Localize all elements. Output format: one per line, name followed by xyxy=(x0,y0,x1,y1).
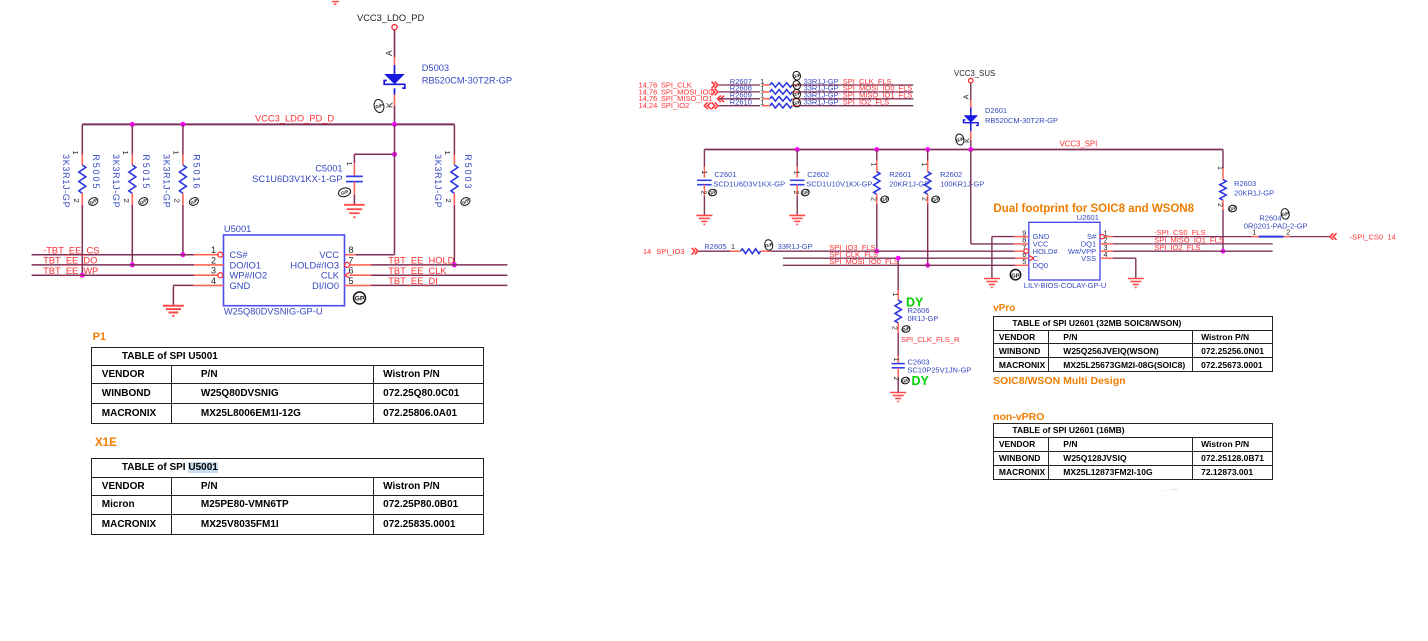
heading vPro xyxy=(993,303,1015,314)
svg-text:SPI_MOSI_IO0_FLS: SPI_MOSI_IO0_FLS xyxy=(829,257,899,266)
svg-text:DO/IO1: DO/IO1 xyxy=(230,260,262,270)
svg-text:G/P: G/P xyxy=(708,189,717,196)
heading P1 xyxy=(93,331,106,343)
svg-text:2: 2 xyxy=(122,199,131,203)
diode D2601 RB520CM-30T2R-GP xyxy=(964,106,1058,131)
pin 1 lead with bubble (S#) xyxy=(1100,234,1113,238)
node junction dot C5001 tap xyxy=(392,152,397,157)
resistor R2608 33R1J-GP xyxy=(719,84,839,95)
svg-text:2: 2 xyxy=(891,326,898,330)
svg-text:VCC3_LDO_PD_D: VCC3_LDO_PD_D xyxy=(255,114,334,124)
svg-text:C5001: C5001 xyxy=(315,164,342,174)
power symbol VCC3_LDO_PD xyxy=(357,13,424,30)
wire diode cathode to rail xyxy=(970,131,972,150)
svg-text:1: 1 xyxy=(891,293,898,297)
svg-text:G/P: G/P xyxy=(375,103,384,110)
node junction dots on VCC3_SPI rail xyxy=(795,147,973,152)
svg-text:C2601: C2601 xyxy=(714,170,736,179)
pin 7 lead with bubble (HOLD#/IO3) xyxy=(345,262,371,267)
svg-text:GP: GP xyxy=(355,296,365,303)
node junction dot R5003/TBT_EE_HOLD xyxy=(452,262,457,267)
svg-text:1: 1 xyxy=(211,245,216,255)
svg-text:2: 2 xyxy=(444,199,453,203)
off-page connector -SPI_CS0 xyxy=(1330,232,1396,241)
node junction dot R5005 xyxy=(80,273,85,278)
svg-text:G/P: G/P xyxy=(340,189,349,196)
resistor R5016 3K3R1J-GP xyxy=(162,124,202,254)
ground C2602 xyxy=(789,215,805,224)
svg-text:G/P: G/P xyxy=(801,189,810,196)
pin 1 lead with bubble (CS#) xyxy=(194,252,223,257)
svg-text:1: 1 xyxy=(171,151,180,155)
svg-text:2: 2 xyxy=(699,191,706,195)
svg-text:VCC3_SUS: VCC3_SUS xyxy=(954,69,995,78)
resistor R2609 33R1J-GP xyxy=(719,91,839,102)
wire VCC column to U5001 pin 8 xyxy=(345,124,395,254)
resistor R5015 3K3R1J-GP xyxy=(111,124,151,265)
svg-text:GP: GP xyxy=(1011,273,1020,279)
svg-text:2: 2 xyxy=(792,191,799,195)
svg-text:DQ0: DQ0 xyxy=(1033,261,1048,270)
pin 4 lead (GND) xyxy=(193,284,223,286)
svg-text:R5005: R5005 xyxy=(91,154,101,190)
wire rail VCC3_LDO_PD_D xyxy=(82,114,454,125)
svg-text:2: 2 xyxy=(870,197,877,201)
resistor R2610 33R1J-GP xyxy=(719,98,839,109)
wire SPI_CLK_FLS to C pin6 xyxy=(783,250,1034,261)
pin 3 lead with bubble (WP#/IO2) xyxy=(194,273,223,278)
off-page connector SPI_MISO_IO1 xyxy=(639,94,725,103)
svg-text:R2601: R2601 xyxy=(889,170,911,179)
resistor R2607 33R1J-GP xyxy=(719,77,839,88)
svg-text:20KR1J-GP: 20KR1J-GP xyxy=(1234,189,1274,198)
svg-text:DY: DY xyxy=(912,374,930,388)
DY marker 2 xyxy=(912,374,930,388)
off-page connector SPI_IO3 xyxy=(643,247,698,256)
GP stamp U2601 xyxy=(1010,270,1020,280)
svg-text:G/P: G/P xyxy=(902,326,911,333)
DY marker 1 xyxy=(906,296,924,310)
svg-text:TBT_EE_DI: TBT_EE_DI xyxy=(388,276,438,286)
svg-text:2: 2 xyxy=(172,199,181,203)
svg-text:1: 1 xyxy=(892,358,899,362)
svg-text:VCC: VCC xyxy=(319,250,339,260)
table of SPI U2601 16MB xyxy=(993,423,1273,479)
svg-text:D2601: D2601 xyxy=(985,106,1007,115)
svg-text:R5015: R5015 xyxy=(141,154,151,190)
svg-text:SPI_IO2_FLS: SPI_IO2_FLS xyxy=(843,98,889,107)
svg-text:SC1U6D3V1KX-1-GP: SC1U6D3V1KX-1-GP xyxy=(252,174,342,184)
wire SPI_IO3_FLS to HOLD# pin7 xyxy=(771,243,1029,254)
pin 6 lead with clock arrow (CLK) xyxy=(345,272,371,278)
svg-text:4: 4 xyxy=(211,276,216,286)
svg-text:SPI_IO3: SPI_IO3 xyxy=(656,247,684,256)
svg-text:R2605: R2605 xyxy=(704,242,726,251)
resistor R2603 20KR1J-GP xyxy=(1216,150,1274,252)
off-page connector SPI_IO2 xyxy=(639,101,719,110)
svg-text:A: A xyxy=(384,50,394,56)
svg-text:G/P: G/P xyxy=(880,196,889,203)
svg-text:1: 1 xyxy=(71,151,80,155)
svg-text:C2602: C2602 xyxy=(807,170,829,179)
svg-text:W25Q80DVSNIG-GP-U: W25Q80DVSNIG-GP-U xyxy=(224,307,323,317)
pin 2 lead (DO/IO1) xyxy=(194,264,224,266)
diode D5003 RB520CM-30T2R-GP xyxy=(384,63,512,95)
svg-text:1: 1 xyxy=(760,98,764,107)
wire SPI_MISO_IO1_FLS xyxy=(800,91,913,100)
off-page connector SPI_CLK xyxy=(639,80,719,89)
op-amp? IC U5001 W25Q80DVSNIG-GP-U xyxy=(211,224,354,317)
svg-text:LILY-BIOS-COLAY-GP-U: LILY-BIOS-COLAY-GP-U xyxy=(1024,281,1107,290)
resistor R2602 100KR1J-GP xyxy=(920,150,984,266)
svg-text:33R1J-GP: 33R1J-GP xyxy=(778,242,813,251)
wire TBT_EE_DI xyxy=(371,276,508,286)
table of SPI U2601 32MB xyxy=(993,316,1273,372)
svg-text:1: 1 xyxy=(700,171,707,175)
wire SPI_MOSI_IO0_FLS to DQ0 pin5 xyxy=(783,257,1029,266)
wire GND pin 9 to ground xyxy=(992,237,1029,279)
node junction dots on rail xyxy=(130,122,397,127)
svg-text:CS#: CS# xyxy=(230,250,249,260)
svg-text:U5001: U5001 xyxy=(224,224,251,234)
svg-text:VCC3_LDO_PD: VCC3_LDO_PD xyxy=(357,13,424,23)
svg-text:R5003: R5003 xyxy=(463,154,473,190)
pin label A (anode D2601) xyxy=(961,94,970,100)
svg-text:R2603: R2603 xyxy=(1234,179,1256,188)
wire SPI_IO2_FLS xyxy=(800,98,913,107)
svg-text:1: 1 xyxy=(345,162,354,166)
svg-text:GND: GND xyxy=(230,281,251,291)
svg-text:DY: DY xyxy=(906,296,924,310)
ground U2601 VSS xyxy=(1128,279,1144,288)
svg-text:TBT_EE_WP: TBT_EE_WP xyxy=(43,266,98,276)
svg-text:-SPI_CS0: -SPI_CS0 xyxy=(1350,232,1383,241)
node junction dot R2606/SPI_CLK_FLS xyxy=(896,256,901,261)
wire SPI_MISO_IO1_FLS (pin 2 DQ1) xyxy=(1100,236,1273,245)
svg-text:U2601: U2601 xyxy=(1077,213,1099,222)
svg-text:0R1J-GP: 0R1J-GP xyxy=(908,314,939,323)
wire VSS pin 4 to ground xyxy=(1100,258,1136,278)
svg-text:2: 2 xyxy=(920,197,927,201)
resistor R2606 0R1J-GP (DY) xyxy=(891,258,939,333)
IC U2601 LILY-BIOS-COLAY-GP-U xyxy=(1022,213,1107,290)
svg-text:1: 1 xyxy=(793,171,800,175)
svg-text:RB520CM-30T2R-GP: RB520CM-30T2R-GP xyxy=(422,75,512,85)
svg-text:R2602: R2602 xyxy=(940,170,962,179)
heading X1E xyxy=(95,437,117,449)
node junction dot R5015 xyxy=(130,262,135,267)
heading: Dual footprint for SOIC8 and WSON8 xyxy=(993,203,1194,215)
resistor R5005 3K3R1J-GP xyxy=(61,124,101,275)
svg-text:G/P: G/P xyxy=(765,242,773,248)
wire SPI_MOSI_IO0_FLS xyxy=(800,84,913,93)
svg-text:2: 2 xyxy=(892,377,899,381)
svg-text:DI/IO0: DI/IO0 xyxy=(312,281,339,291)
svg-text:1: 1 xyxy=(443,151,452,155)
svg-text:14: 14 xyxy=(643,247,651,256)
wire VCC3_SUS to diode anode xyxy=(970,83,972,108)
svg-text:2: 2 xyxy=(1216,203,1223,207)
ground (cut off at top of page) xyxy=(332,2,339,5)
pin label A (anode) xyxy=(384,50,394,56)
svg-text:0R0201-PAD-2-GP: 0R0201-PAD-2-GP xyxy=(1244,221,1308,230)
ground C2603 xyxy=(890,393,906,402)
svg-text:14,24: 14,24 xyxy=(639,101,658,110)
svg-text:20KR1J-GP: 20KR1J-GP xyxy=(889,180,929,189)
svg-text:1: 1 xyxy=(869,163,876,167)
svg-text:HOLD#/IO3: HOLD#/IO3 xyxy=(290,260,339,270)
capacitor C2601 SCD1U6D3V1KX-GP xyxy=(697,150,785,215)
svg-text:3K3R1J-GP: 3K3R1J-GP xyxy=(162,154,172,208)
wire VCC3_LDO_PD to diode anode xyxy=(394,30,396,65)
resistor R2601 20KR1J-GP xyxy=(869,150,929,252)
wire -TBT_EE_CS xyxy=(32,245,194,255)
svg-text:1: 1 xyxy=(920,163,927,167)
wire SPI_CLK_FLS_R xyxy=(898,333,960,356)
svg-text:TBT_EE_DO: TBT_EE_DO xyxy=(43,256,97,266)
svg-text:2: 2 xyxy=(72,199,81,203)
svg-text:TBT_EE_HOLD: TBT_EE_HOLD xyxy=(388,256,454,266)
svg-text:CLK: CLK xyxy=(321,271,340,281)
svg-text:TBT_EE_CLK: TBT_EE_CLK xyxy=(388,266,447,276)
node junction dot R2601 xyxy=(874,249,879,254)
resistor R5003 3K3R1J-GP xyxy=(433,124,473,265)
svg-text:1: 1 xyxy=(121,151,130,155)
wire TBT_EE_HOLD xyxy=(371,256,508,266)
GP stamps for R2607-R2610 xyxy=(792,70,802,107)
svg-text:SPI_IO2: SPI_IO2 xyxy=(661,101,689,110)
svg-text:SPI_CLK_FLS_R: SPI_CLK_FLS_R xyxy=(901,335,960,344)
wire rail VCC3_SPI xyxy=(704,140,1223,150)
svg-text:K: K xyxy=(385,102,395,108)
capacitor C5001 SC1U6D3V1KX-1-GP xyxy=(252,154,394,204)
svg-text:G/P: G/P xyxy=(1281,211,1289,217)
heading SOIC8/WSON Multi Design xyxy=(993,375,1125,387)
wire -SPI_CS0_FLS xyxy=(1113,228,1252,237)
svg-text:SPI_IO2_FLS: SPI_IO2_FLS xyxy=(1154,243,1200,252)
wire VCC3_SPI to U2601 VCC pin 8 xyxy=(971,150,1029,244)
svg-text:VCC3_SPI: VCC3_SPI xyxy=(1060,140,1098,149)
wire GND pin4 to ground xyxy=(173,285,193,305)
power symbol VCC3_SUS xyxy=(954,69,995,83)
node junction dot R2603/SPI_IO2_FLS xyxy=(1221,249,1226,254)
svg-text:1: 1 xyxy=(1216,166,1223,170)
node junction dot R5016 xyxy=(180,252,185,257)
capacitor C2602 SCD1U10V1KX-GP xyxy=(790,150,873,215)
svg-text:8: 8 xyxy=(349,245,354,255)
resistor R2605 33R1J-GP xyxy=(699,239,813,254)
svg-text:VSS: VSS xyxy=(1081,254,1096,263)
wire TBT_EE_WP xyxy=(32,266,194,276)
faint page artifact xyxy=(1156,486,1179,493)
svg-text:3K3R1J-GP: 3K3R1J-GP xyxy=(111,154,121,208)
resistor R2604 0R0201-PAD-2-GP xyxy=(1244,208,1308,237)
table of SPI U5001 (P1) xyxy=(91,347,484,424)
svg-text:WP#/IO2: WP#/IO2 xyxy=(230,271,268,281)
svg-text:3: 3 xyxy=(211,266,216,276)
svg-text:SCD1U10V1KX-GP: SCD1U10V1KX-GP xyxy=(806,180,872,189)
svg-text:G/P: G/P xyxy=(1228,205,1237,212)
wire TBT_EE_CLK xyxy=(371,266,508,276)
svg-text:3K3R1J-GP: 3K3R1J-GP xyxy=(433,154,443,208)
wire SPI_CLK_FLS xyxy=(800,77,913,86)
svg-text:2: 2 xyxy=(211,255,216,265)
svg-text:G/P: G/P xyxy=(901,377,910,384)
wire to off-page -SPI_CS0 xyxy=(1290,236,1329,238)
wire TBT_EE_DO xyxy=(32,256,194,266)
svg-text:R5016: R5016 xyxy=(192,154,202,190)
pin label K (cathode D2601) + GP stamp xyxy=(955,133,972,146)
svg-text:3K3R1J-GP: 3K3R1J-GP xyxy=(61,154,71,208)
off-page connector SPI_MOSI_IO0 xyxy=(639,87,719,96)
ground C2601 xyxy=(696,215,712,224)
ground U2601 pin9 xyxy=(984,279,1000,288)
table of SPI U5001 (X1E) xyxy=(91,458,484,535)
GP stamp U5001 xyxy=(354,292,366,304)
svg-text:-TBT_EE_CS: -TBT_EE_CS xyxy=(43,245,99,255)
svg-text:A: A xyxy=(961,94,970,100)
ground C5001 xyxy=(344,205,365,217)
svg-text:R2610: R2610 xyxy=(730,98,752,107)
wire diode cathode to rail xyxy=(394,95,396,125)
svg-text:RB520CM-30T2R-GP: RB520CM-30T2R-GP xyxy=(985,116,1058,125)
ground U5001 xyxy=(163,306,184,316)
pin 5 lead (DI/IO0) xyxy=(345,284,372,286)
capacitor C2603 SC10P25V1JN-GP xyxy=(892,356,972,392)
svg-text:D5003: D5003 xyxy=(422,63,449,73)
svg-text:SCD1U6D3V1KX-GP: SCD1U6D3V1KX-GP xyxy=(713,180,785,189)
heading non-vPRO xyxy=(993,411,1044,423)
svg-text:14: 14 xyxy=(1387,232,1395,241)
svg-text:1: 1 xyxy=(731,242,735,251)
wire SPI_IO2_FLS (pin 3 W#/VPP) xyxy=(1100,243,1273,252)
node junction dot R2602 xyxy=(925,263,930,268)
svg-text:G/P: G/P xyxy=(931,196,940,203)
pin label K (cathode) + GP stamp xyxy=(373,98,395,113)
svg-text:100KR1J-GP: 100KR1J-GP xyxy=(940,180,984,189)
